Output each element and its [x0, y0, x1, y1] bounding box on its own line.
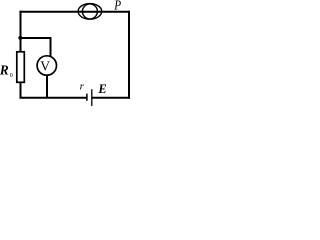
- resistor R0 (box): [17, 52, 25, 83]
- wire: voltmeter branch vertical: [50, 37, 52, 58]
- label P: [113, 0, 121, 13]
- lamp P (ellipse with inscribed circle): [78, 4, 102, 20]
- battery E: short plate: [86, 94, 88, 101]
- svg-text:r: r: [80, 81, 85, 93]
- svg-text:P: P: [113, 0, 121, 13]
- wire: bottom side, right segment (battery to right corner): [92, 97, 130, 99]
- wire: bottom side, left segment (left corner to battery): [20, 97, 87, 99]
- voltmeter V (circle): [37, 56, 56, 75]
- svg-text:E: E: [97, 82, 106, 96]
- wire: right side: [128, 11, 130, 99]
- wire: voltmeter branch horizontal: [20, 37, 51, 39]
- wire: left side (resistor to bottom corner): [20, 82, 22, 99]
- wire: voltmeter bottom lead: [46, 75, 48, 98]
- svg-text:V: V: [40, 58, 50, 73]
- wire: left side (top corner to resistor): [20, 11, 22, 52]
- node: junction dot: [18, 36, 22, 40]
- battery E: long plate: [91, 89, 93, 106]
- wire: top side, left segment: [19, 11, 130, 13]
- svg-text:R: R: [0, 62, 9, 77]
- svg-text:0: 0: [10, 73, 13, 79]
